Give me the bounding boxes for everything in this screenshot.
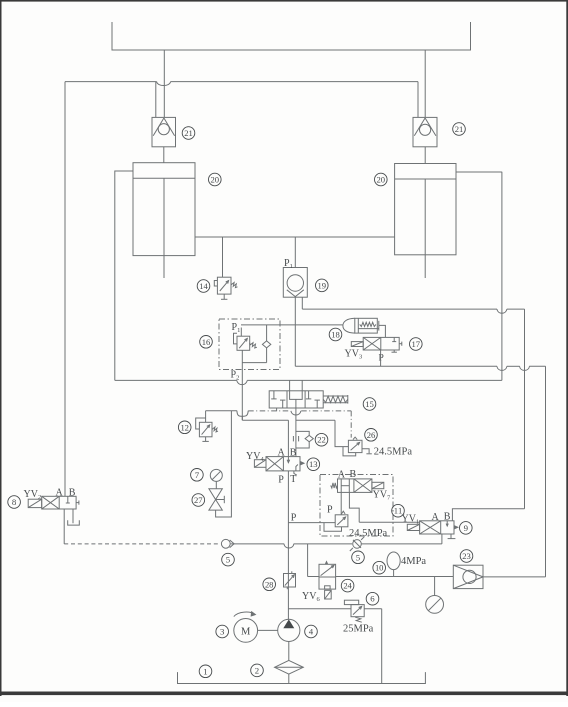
- svg-text:P: P: [291, 512, 297, 523]
- svg-text:8: 8: [12, 497, 17, 507]
- svg-text:T: T: [290, 474, 296, 485]
- svg-text:24.5MPa: 24.5MPa: [374, 447, 413, 458]
- svg-text:12: 12: [180, 422, 189, 432]
- svg-text:23: 23: [462, 551, 471, 561]
- svg-text:28: 28: [265, 579, 274, 589]
- svg-text:A: A: [278, 448, 286, 459]
- svg-text:6: 6: [370, 594, 375, 604]
- svg-text:18: 18: [331, 330, 340, 340]
- svg-text:P: P: [278, 474, 284, 485]
- svg-text:27: 27: [194, 495, 203, 505]
- svg-text:M: M: [241, 626, 251, 637]
- svg-text:22: 22: [317, 435, 326, 445]
- svg-text:4MPa: 4MPa: [401, 556, 426, 567]
- svg-text:13: 13: [309, 459, 318, 469]
- svg-text:A: A: [432, 512, 440, 523]
- svg-text:10: 10: [375, 563, 384, 573]
- svg-text:B: B: [69, 487, 76, 498]
- svg-text:17: 17: [412, 339, 421, 349]
- svg-text:P: P: [327, 505, 333, 516]
- svg-text:B: B: [350, 469, 357, 480]
- svg-text:21: 21: [455, 124, 464, 134]
- svg-text:4: 4: [309, 627, 314, 637]
- svg-text:26: 26: [367, 430, 376, 440]
- svg-text:5: 5: [356, 552, 361, 562]
- svg-text:24: 24: [343, 581, 352, 591]
- svg-text:3: 3: [220, 627, 225, 637]
- svg-text:9: 9: [464, 523, 469, 533]
- svg-text:15: 15: [365, 399, 374, 409]
- svg-text:19: 19: [318, 280, 327, 290]
- svg-text:5: 5: [226, 555, 231, 565]
- svg-text:A: A: [338, 469, 346, 480]
- svg-text:B: B: [444, 511, 451, 522]
- svg-text:24.5MPa: 24.5MPa: [349, 528, 388, 539]
- svg-text:20: 20: [377, 175, 386, 185]
- svg-text:21: 21: [184, 128, 193, 138]
- svg-text:1: 1: [203, 666, 207, 676]
- svg-text:14: 14: [199, 281, 208, 291]
- svg-text:16: 16: [202, 337, 211, 347]
- svg-text:P: P: [379, 354, 384, 364]
- svg-text:20: 20: [211, 175, 220, 185]
- svg-text:25MPa: 25MPa: [343, 624, 374, 635]
- svg-text:B: B: [290, 447, 297, 458]
- svg-text:A: A: [56, 487, 64, 498]
- svg-text:7: 7: [195, 470, 200, 480]
- svg-text:2: 2: [255, 665, 259, 675]
